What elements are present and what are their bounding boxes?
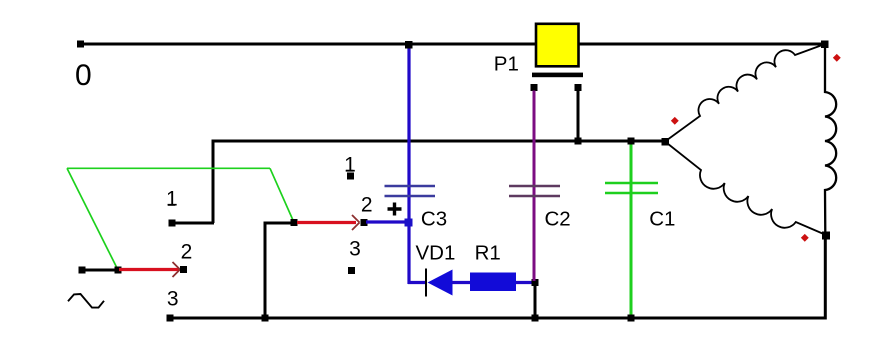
svg-text:2: 2 — [181, 240, 193, 263]
svg-text:3: 3 — [167, 288, 179, 311]
relay P1 contact bar — [532, 73, 583, 78]
wire red arrow 1 — [119, 262, 180, 277]
marker red dot bottom — [801, 234, 809, 242]
label VD1 — [416, 242, 456, 265]
label P1 — [494, 53, 519, 76]
diode VD1 — [426, 269, 453, 297]
node terminal 1 — [169, 220, 176, 227]
node delta top vertex — [821, 41, 829, 49]
label 0 — [75, 59, 92, 92]
wire diode to resistor — [452, 281, 470, 284]
svg-text:1: 1 — [166, 188, 178, 211]
label R1 — [475, 242, 501, 265]
label 2 centre — [361, 193, 373, 216]
wire second bus — [213, 141, 666, 223]
motor winding top-left coil — [665, 44, 825, 142]
wire link from bottom bus up to arrow-2 start — [265, 223, 295, 318]
wire red arrow 2 — [297, 215, 360, 230]
svg-text:C3: C3 — [421, 207, 447, 230]
node junction R1 C2 — [532, 279, 539, 286]
relay coil P1 box — [536, 24, 579, 67]
motor winding right coil — [825, 44, 836, 235]
ac source sine symbol — [68, 294, 104, 308]
node junction on bottom bus — [262, 315, 269, 322]
node junction C3 blue square — [405, 219, 413, 227]
node terminal 3 bottom-left — [167, 315, 174, 322]
label 1 centre — [344, 153, 356, 176]
node 3 centre small square — [348, 267, 355, 274]
node junction source — [115, 267, 122, 274]
wire P1 right lead down to second bus — [577, 88, 580, 141]
node 1 centre small square — [347, 173, 354, 180]
label C1 — [649, 208, 675, 231]
capacitor C3 vertical lead — [407, 46, 410, 284]
wire top bus 0 — [80, 43, 825, 46]
capacitor C2 plates — [509, 186, 560, 196]
svg-text:VD1: VD1 — [416, 242, 456, 265]
wire green phase line left diagonal — [67, 168, 118, 270]
node terminal source left — [79, 267, 86, 274]
node junction arrow-2 start — [291, 219, 298, 226]
node delta bottom vertex — [822, 232, 830, 240]
label C2 — [545, 207, 571, 230]
wire left source lead — [82, 269, 118, 272]
svg-text:3: 3 — [349, 237, 361, 260]
svg-text:0: 0 — [75, 59, 92, 92]
motor winding bottom coil — [665, 142, 826, 236]
wire green phase line horizontal — [67, 167, 270, 169]
capacitor C2 vertical lead — [533, 91, 536, 282]
label 3 left — [167, 288, 179, 311]
wire green phase line right diagonal — [270, 168, 294, 222]
svg-text:R1: R1 — [475, 242, 501, 265]
node terminal P1 right lead — [575, 84, 582, 91]
polarity plus sign C3 — [388, 203, 402, 216]
node junction second bus P1 — [575, 138, 582, 145]
svg-text:P1: P1 — [494, 53, 519, 76]
svg-text:2: 2 — [361, 193, 373, 216]
node junction top bus and C3 lead — [405, 41, 413, 49]
node terminal 0 left end — [77, 41, 84, 48]
node terminal 2 left — [180, 266, 187, 273]
node junction bottom bus below R1 — [532, 315, 539, 322]
node terminal P1 left lead — [531, 84, 538, 91]
node terminal 2 centre — [361, 219, 368, 226]
wire blue lead from terminal 2 to C3 — [366, 220, 409, 223]
label 3 centre — [349, 237, 361, 260]
label 2 left — [181, 240, 193, 263]
marker red dot left — [671, 117, 679, 125]
wire bottom bus 3 — [170, 235, 825, 318]
wire terminal-1 lead — [172, 222, 214, 225]
wire junction down to bottom bus — [534, 283, 537, 318]
capacitor C3 plates — [385, 186, 436, 196]
svg-text:C2: C2 — [545, 207, 571, 230]
wire resistor to junction — [516, 281, 535, 284]
capacitor C1 plates — [605, 183, 658, 193]
node delta left vertex — [662, 138, 670, 146]
label C3 — [421, 207, 447, 230]
node junction second bus C1 — [628, 138, 635, 145]
capacitor C1 vertical lead — [630, 144, 633, 317]
wire blue from C3 down corner to diode — [408, 281, 426, 284]
marker red dot top — [833, 54, 841, 62]
resistor R1 — [470, 273, 516, 292]
label 1 left — [166, 188, 178, 211]
node junction bottom bus C1 — [628, 315, 635, 322]
svg-text:C1: C1 — [649, 208, 675, 231]
